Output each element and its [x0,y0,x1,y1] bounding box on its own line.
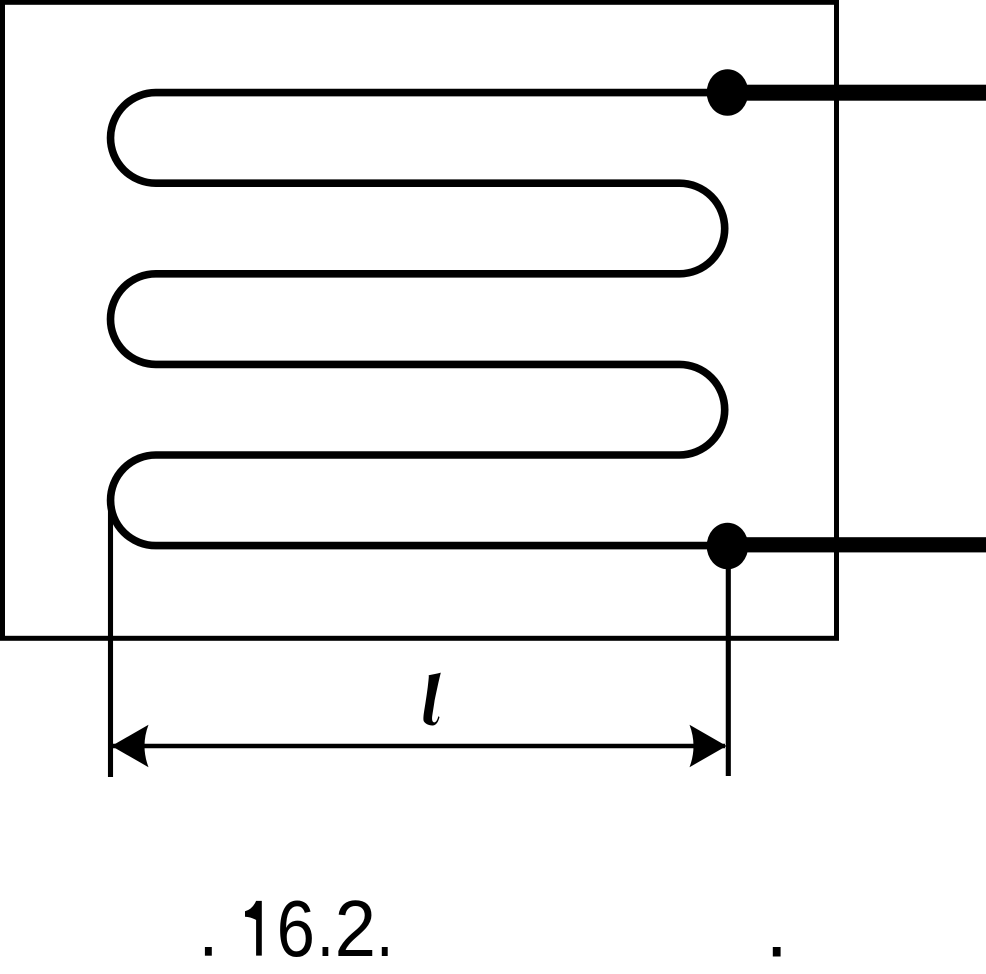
svg-text:6: 6 [277,883,315,973]
svg-text:2: 2 [335,884,376,973]
